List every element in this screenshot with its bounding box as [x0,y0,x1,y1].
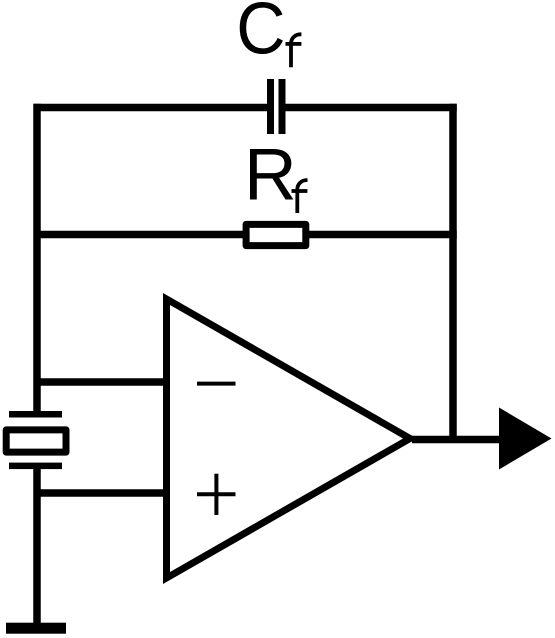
wire: non-inverting input [34,489,170,497]
op-amp U1 triangle [167,299,411,578]
label Rf [244,135,308,216]
wire: output [412,436,500,444]
resistor Rf [246,224,306,245]
ground [6,623,66,634]
wire: ground lead [33,465,41,628]
svg-text:C: C [236,0,285,69]
svg-text:R: R [244,135,297,216]
crystal X1 [6,411,66,469]
output arrowhead [499,408,552,470]
op-amp plus sign [197,474,236,515]
wire: inverting input [34,378,170,386]
wire: left vertical rail [33,104,41,415]
capacitor Cf plates [267,79,286,134]
wire: resistor feedback branch [34,231,457,239]
label Cf [236,0,301,69]
op-amp minus sign [197,382,236,386]
wire: right vertical feedback rail [449,104,457,443]
wire: top feedback branch (to capacitor) [34,104,457,112]
